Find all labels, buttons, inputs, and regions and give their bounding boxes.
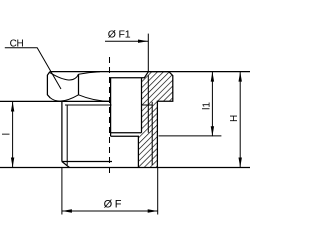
svg-text:Ø F1: Ø F1 xyxy=(108,29,131,41)
svg-text:l: l xyxy=(1,133,12,135)
svg-text:l1: l1 xyxy=(202,102,213,110)
svg-text:H: H xyxy=(229,115,240,122)
svg-text:Ø F: Ø F xyxy=(104,198,122,210)
